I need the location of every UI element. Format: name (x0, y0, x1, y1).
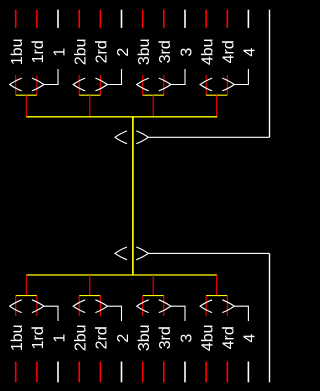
svg-text:4rd: 4rd (221, 40, 238, 63)
svg-text:4: 4 (242, 334, 259, 343)
socket pin symbol middle top right (136, 131, 148, 144)
socket pin symbol 1rd (32, 78, 44, 91)
svg-text:3rd: 3rd (157, 326, 174, 349)
connector X1 pin 4 pad (247, 10, 249, 28)
wire pair bus 2 bottom (yellow) (79, 295, 100, 297)
socket pin symbol middle top left (115, 131, 127, 144)
svg-text:4bu: 4bu (199, 324, 216, 351)
connector X1 pin 2bu pad (78, 10, 80, 28)
socket pin symbol 3bu bottom (137, 300, 149, 313)
svg-text:4rd: 4rd (221, 326, 238, 349)
connector X2 pin 2rd pad (99, 362, 101, 383)
wire net 1bu bottom (red) (15, 296, 17, 316)
connector X2 pin 1rd pad (36, 362, 38, 383)
svg-text:1rd: 1rd (30, 326, 47, 349)
wire drop pair 1 (red) (25, 95, 27, 117)
wire net 2 (white) to pin 2 (107, 69, 121, 85)
wire net 4rd bottom (red) (226, 296, 228, 316)
wire net 2rd bottom (red) (99, 296, 101, 316)
connector X2 pin 2 pad (121, 362, 123, 383)
svg-text:2rd: 2rd (94, 326, 111, 349)
socket pin symbol middle bottom left (115, 247, 127, 260)
connector X1 pin 3 pad (184, 10, 186, 28)
socket pin symbol 1bu bottom (10, 300, 22, 313)
svg-text:1: 1 (51, 334, 68, 343)
svg-text:3: 3 (178, 334, 195, 343)
wire drop pair 3 (red) (152, 95, 154, 117)
wire middle top (white) (148, 136, 269, 138)
wire center net (yellow) (132, 117, 134, 275)
socket pin symbol 3rd (159, 78, 171, 91)
wire net 4bu bottom (red) (205, 296, 207, 316)
socket pin symbol 2rd bottom (95, 300, 107, 313)
connector X2 pin 4rd pad (226, 362, 228, 383)
wire net 3 (white) to pin 3 (171, 69, 185, 85)
svg-text:2: 2 (115, 334, 132, 343)
socket pin symbol 2bu bottom (73, 300, 85, 313)
socket pin symbol 4bu (200, 78, 212, 91)
connector X1 pin 4rd pad (226, 10, 228, 28)
svg-text:2bu: 2bu (73, 324, 90, 351)
wire net 1rd bottom (red) (36, 296, 38, 316)
connector X1 pin 4bu pad (205, 10, 207, 28)
wire net 4 (white) to pin 4 (234, 69, 248, 85)
svg-text:2bu: 2bu (73, 38, 90, 65)
wire net 4rd (red) (226, 75, 228, 95)
wire drop pair 4 (red) (216, 95, 218, 117)
wire pair bus 1 bottom (yellow) (16, 295, 37, 297)
wire net 2bu (red) (78, 75, 80, 95)
wire main bus bottom (yellow) (26, 274, 217, 276)
svg-text:1bu: 1bu (9, 38, 26, 65)
wire net 2 bottom (white) (107, 306, 121, 321)
connector X1 pin 13 / shield line top (white) (269, 10, 271, 138)
socket pin symbol 2bu (73, 78, 85, 91)
connector X1 pin 1rd pad (36, 10, 38, 28)
svg-text:3rd: 3rd (157, 40, 174, 63)
wire pair bus 2 (yellow) (79, 94, 100, 96)
socket pin symbol middle bottom right (136, 247, 148, 260)
connector X1 pin 3rd pad (163, 10, 165, 28)
svg-text:3bu: 3bu (136, 324, 153, 351)
wire drop pair 3 bottom (red) (152, 275, 154, 296)
connector X2 pin 3rd pad (163, 362, 165, 383)
wire net 1rd (red) (36, 75, 38, 95)
wire net 3bu bottom (red) (142, 296, 144, 316)
wire net 3 bottom (white) (171, 306, 185, 321)
wire net 3bu (red) (142, 75, 144, 95)
wire pair bus 4 (yellow) (206, 94, 227, 96)
wire net 3rd (red) (163, 75, 165, 95)
wire drop pair 4 bottom (red) (216, 275, 218, 296)
connector X2 pin 13 / shield line bottom (white) (269, 253, 271, 382)
wire middle bottom (white) (148, 252, 269, 254)
connector X1 pin 1bu pad (15, 10, 17, 28)
connector X1 pin 1 pad (57, 10, 59, 28)
wire pair bus 3 bottom (yellow) (143, 295, 164, 297)
wire drop pair 2 (red) (89, 95, 91, 117)
wire net 3rd bottom (red) (163, 296, 165, 316)
wire net 2rd (red) (99, 75, 101, 95)
svg-text:3: 3 (178, 48, 195, 57)
svg-text:4: 4 (242, 48, 259, 57)
wire net 2bu bottom (red) (78, 296, 80, 316)
wire pair bus 4 bottom (yellow) (206, 295, 227, 297)
svg-text:1: 1 (51, 48, 68, 57)
wire pair bus 3 (yellow) (143, 94, 164, 96)
wire net 1 bottom (white) (44, 306, 58, 321)
svg-text:2rd: 2rd (94, 40, 111, 63)
connector X2 pin 2bu pad (78, 362, 80, 383)
svg-text:1bu: 1bu (9, 324, 26, 351)
connector X1 pin 2rd pad (99, 10, 101, 28)
socket pin symbol 4rd (222, 78, 234, 91)
svg-text:4bu: 4bu (199, 38, 216, 65)
socket pin symbol 2rd (95, 78, 107, 91)
connector X2 pin 3 pad (184, 362, 186, 383)
wire net 4 bottom (white) (234, 306, 248, 321)
socket pin symbol 1bu (10, 78, 22, 91)
wire pair bus 1 (yellow) (16, 94, 37, 96)
wire net 4bu (red) (205, 75, 207, 95)
socket pin symbol 4bu bottom (200, 300, 212, 313)
socket pin symbol 3rd bottom (159, 300, 171, 313)
connector X1 pin 2 pad (121, 10, 123, 28)
socket pin symbol 1rd bottom (32, 300, 44, 313)
wire drop pair 1 bottom (red) (25, 275, 27, 296)
socket pin symbol 4rd bottom (222, 300, 234, 313)
connector X2 pin 4 pad (247, 362, 249, 383)
connector X2 pin 1 pad (57, 362, 59, 383)
wire net 1 (white) to pin 1 (44, 69, 58, 85)
wire drop pair 2 bottom (red) (89, 275, 91, 296)
svg-text:3bu: 3bu (136, 38, 153, 65)
connector X1 pin 3bu pad (142, 10, 144, 28)
connector X2 pin 3bu pad (142, 362, 144, 383)
connector X2 pin 4bu pad (205, 362, 207, 383)
svg-text:2: 2 (115, 48, 132, 57)
socket pin symbol 3bu (137, 78, 149, 91)
connector X2 pin 1bu pad (15, 362, 17, 383)
wire net 1bu (red) (15, 75, 17, 95)
wire main bus top (yellow) (26, 116, 217, 118)
svg-text:1rd: 1rd (30, 40, 47, 63)
